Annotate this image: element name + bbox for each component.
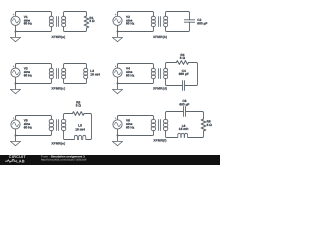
wire primary loop xyxy=(117,12,119,17)
wire secondary loop 2 xyxy=(166,12,190,20)
capacitor C2 xyxy=(184,19,195,21)
voltage source V6 xyxy=(113,120,122,129)
svg-text:XFMR(f): XFMR(f) xyxy=(153,139,166,143)
transformer XFMR(d) xyxy=(151,68,155,72)
junction node xyxy=(15,135,17,137)
voltage source V5 xyxy=(11,120,20,129)
wire secondary loop 1 xyxy=(64,12,87,17)
wire secondary loop 5 xyxy=(64,114,73,120)
svg-text:600 µF: 600 µF xyxy=(179,103,189,107)
svg-text:60 Hz: 60 Hz xyxy=(126,74,135,78)
ground xyxy=(15,84,17,90)
wire primary loop xyxy=(15,12,17,17)
inductor L5 xyxy=(74,135,87,139)
wire primary loop xyxy=(15,116,17,120)
svg-text:5 Ω: 5 Ω xyxy=(76,104,82,108)
ground xyxy=(15,136,17,142)
svg-text:http://circuitlab.com/c/au2u71: http://circuitlab.com/c/au2u7125b3zdf xyxy=(41,158,87,161)
junction node xyxy=(15,83,17,85)
svg-text:XFMR(a): XFMR(a) xyxy=(51,35,65,39)
wire secondary loop 4 xyxy=(166,63,177,69)
svg-text:60 Hz: 60 Hz xyxy=(24,22,33,26)
inductor L3 xyxy=(84,68,88,72)
capacitor C6 xyxy=(183,106,185,116)
resistor R4 xyxy=(176,61,188,65)
svg-text:16 mH: 16 mH xyxy=(90,72,100,76)
svg-text:5 Ω: 5 Ω xyxy=(89,19,95,23)
svg-text:XFMR(b): XFMR(b) xyxy=(153,35,167,39)
junction node xyxy=(117,31,119,33)
svg-text:600 µF: 600 µF xyxy=(197,21,207,25)
svg-text:600 µF: 600 µF xyxy=(179,72,189,76)
transformer XFMR(b) xyxy=(151,16,155,20)
svg-text:XFMR(d): XFMR(d) xyxy=(153,87,167,91)
footer bar xyxy=(0,155,220,165)
voltage source V4 xyxy=(113,68,122,77)
svg-text:60 Hz: 60 Hz xyxy=(126,125,135,129)
ground xyxy=(117,84,119,90)
junction node xyxy=(117,83,119,85)
wire primary loop xyxy=(117,64,119,68)
transformer XFMR(a) xyxy=(49,16,53,20)
wire secondary loop 3 xyxy=(64,64,87,69)
voltage source V1 xyxy=(11,16,20,25)
voltage source V3 xyxy=(11,68,20,77)
junction node xyxy=(15,31,17,33)
svg-text:5 Ω: 5 Ω xyxy=(180,56,186,60)
resistor R1 xyxy=(84,16,89,28)
svg-text:60 Hz: 60 Hz xyxy=(126,22,135,26)
junction node xyxy=(117,135,119,137)
svg-text:XFMR(c): XFMR(c) xyxy=(51,87,65,91)
svg-text:5 Ω: 5 Ω xyxy=(207,123,213,127)
wire primary loop xyxy=(117,116,119,120)
voltage source V2 xyxy=(113,16,122,25)
svg-text:16 mH: 16 mH xyxy=(179,127,189,131)
svg-text:XFMR(e): XFMR(e) xyxy=(51,142,65,146)
ground xyxy=(117,32,119,38)
wire secondary loop 6 xyxy=(166,112,184,120)
transformer XFMR(e) xyxy=(49,119,53,123)
wire primary loop xyxy=(15,64,17,68)
svg-text:60 Hz: 60 Hz xyxy=(24,74,33,78)
ground xyxy=(15,32,17,38)
svg-text:16 mH: 16 mH xyxy=(75,128,85,132)
transformer XFMR(c) xyxy=(49,68,53,72)
inductor L6 xyxy=(178,133,188,137)
transformer XFMR(f) xyxy=(151,119,155,123)
svg-text:LAB: LAB xyxy=(16,158,25,163)
ground xyxy=(117,136,119,142)
resistor R5 xyxy=(73,112,85,116)
resistor R6 xyxy=(201,119,206,131)
svg-text:60 Hz: 60 Hz xyxy=(24,125,33,129)
capacitor C4 xyxy=(182,80,184,90)
